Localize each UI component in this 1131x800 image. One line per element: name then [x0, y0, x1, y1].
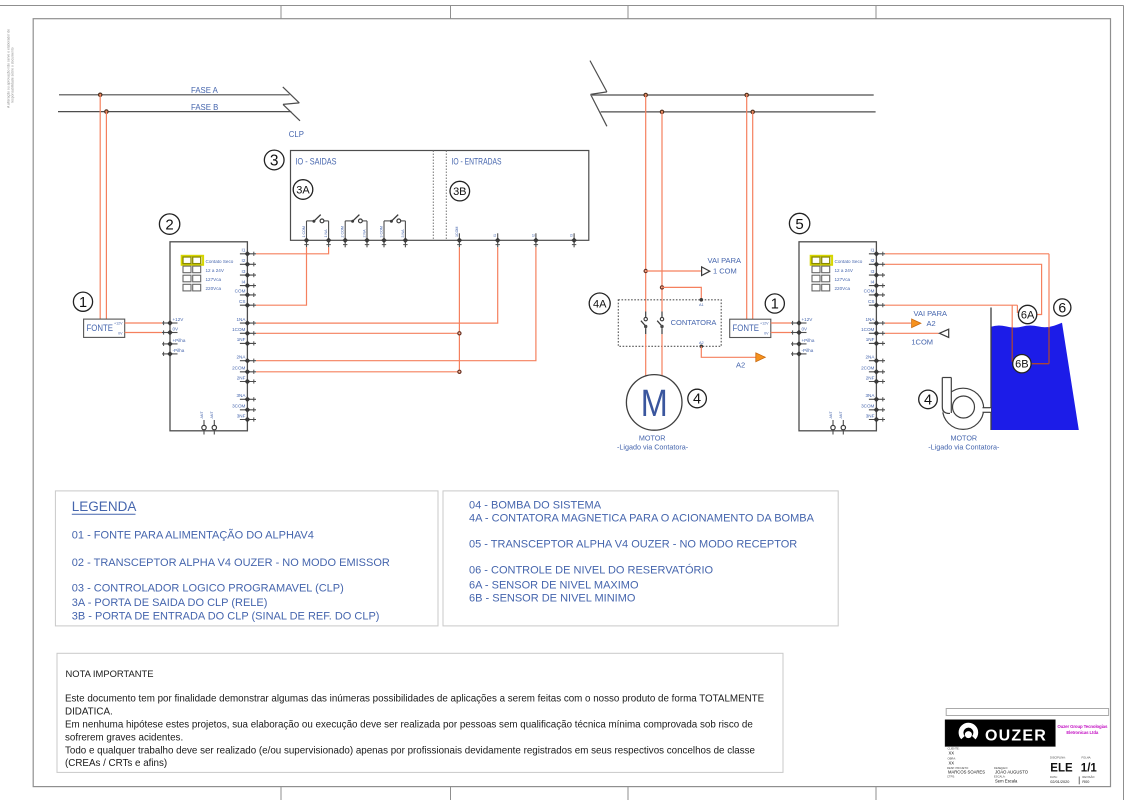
svg-text:Sem Escala: Sem Escala: [995, 778, 1018, 783]
svg-text:6A: 6A: [1021, 309, 1035, 321]
svg-text:FOLHA:: FOLHA:: [1082, 756, 1092, 760]
U2 pin CS: [239, 299, 256, 308]
svg-text:DIDATICA.: DIDATICA.: [65, 707, 113, 718]
svg-text:2 COM: 2 COM: [341, 226, 345, 237]
svg-text:2 NA: 2 NA: [363, 229, 367, 238]
svg-text:2NA: 2NA: [236, 355, 246, 360]
svg-text:Contato Seco: Contato Seco: [835, 259, 863, 264]
CLP relay contact K3: [380, 215, 409, 248]
U2 pin -Pilha: [162, 348, 185, 357]
junction FASE A / fonte drop: [99, 93, 102, 96]
U2 pin 3NF: [237, 413, 256, 422]
svg-text:A1: A1: [699, 303, 704, 307]
svg-text:3 NA: 3 NA: [401, 229, 405, 238]
U5 pin COM: [864, 289, 885, 298]
U2 antenna pin 1: [200, 411, 206, 435]
svg-text:2NA: 2NA: [865, 355, 875, 360]
U2 pin I3: [240, 269, 256, 278]
svg-text:COM: COM: [235, 289, 246, 294]
contactor KM1 enclosure: [618, 300, 721, 347]
CLP relay contact K1: [302, 215, 331, 248]
legend box left: [55, 491, 438, 626]
zone tick top 2: [450, 6, 452, 19]
U2 pin 1NF: [237, 337, 256, 346]
junction fase A / contactor drop: [644, 93, 647, 96]
wire U5 I1 to 6B: [885, 254, 1049, 364]
U2 pin 0V: [162, 327, 179, 336]
svg-text:CS: CS: [868, 299, 874, 304]
U2 pin 1NA: [236, 317, 256, 326]
U5 pin I3: [869, 269, 885, 278]
svg-text:4: 4: [693, 392, 701, 408]
svg-text:R00: R00: [1082, 780, 1089, 784]
label MOTOR (left): [617, 433, 689, 451]
svg-text:3 COM: 3 COM: [380, 226, 384, 237]
label VAI PARA A2: [914, 309, 947, 328]
svg-text:A2: A2: [736, 360, 745, 369]
CLP input pin 1COM: [455, 227, 462, 248]
svg-text:DISCIPLINA:: DISCIPLINA:: [1050, 756, 1066, 760]
U5 pin 2NA: [865, 355, 885, 364]
net FASE B (right bus): [601, 111, 876, 113]
svg-text:0V: 0V: [764, 332, 769, 336]
wire U5 1NA to A2 arrow: [885, 322, 911, 324]
nota paragraph: [65, 694, 765, 770]
U5 pin 2NF: [866, 375, 885, 384]
U2 pin I4: [240, 279, 256, 288]
svg-text:DATA:: DATA:: [1050, 775, 1058, 779]
svg-text:I3: I3: [570, 234, 574, 237]
arrow A2 (filled): [756, 353, 766, 362]
U5 pin 1NA: [865, 317, 885, 326]
junction FASE B / fonte drop: [105, 110, 108, 113]
svg-text:ANT: ANT: [210, 411, 214, 419]
svg-text:I2: I2: [242, 258, 246, 263]
contactor coil terminal A1: [699, 298, 704, 307]
svg-text:1/1: 1/1: [1081, 762, 1098, 774]
svg-text:3: 3: [270, 153, 279, 170]
svg-text:0V: 0V: [173, 327, 180, 332]
U2 pin 2NA: [236, 355, 256, 364]
reservoir water (6): [991, 323, 1079, 430]
svg-text:02/01/2020: 02/01/2020: [1050, 780, 1069, 784]
U5 antenna pin 1: [829, 411, 835, 435]
U2 pin I1: [240, 248, 256, 257]
wire U5 CS to sensors: [885, 305, 1017, 313]
wire U2 2COM to CLP input COM bus: [256, 371, 459, 373]
svg-text:XX: XX: [949, 760, 955, 765]
svg-text:I3: I3: [242, 269, 246, 274]
svg-text:2: 2: [165, 217, 173, 234]
svg-text:Ouzer Group Tecnologias: Ouzer Group Tecnologias: [1057, 724, 1108, 729]
U5 pin 1NF: [866, 337, 885, 346]
svg-text:3A: 3A: [296, 184, 310, 196]
U2 pin 1COM: [232, 327, 256, 336]
U2 pin I2: [240, 258, 256, 267]
U2 pin 2NF: [237, 375, 256, 384]
U2 antenna pin 2: [210, 411, 216, 435]
balloon 5 (transceiver receptor): [789, 213, 809, 233]
CLP internal divider: [433, 151, 446, 241]
svg-text:CS: CS: [239, 299, 245, 304]
U5 pin +Pilha: [791, 338, 815, 347]
U5 pin CS: [868, 299, 885, 308]
svg-text:I3: I3: [871, 269, 875, 274]
balloon 3A (saida rele): [293, 180, 313, 200]
wire contactor pole2 to motor: [661, 334, 663, 376]
svg-text:4: 4: [924, 393, 932, 409]
zone tick bottom 1: [280, 787, 282, 800]
junction tap to A1: [660, 286, 663, 289]
legend box right: [443, 491, 838, 626]
U2 pin 3COM: [232, 404, 256, 413]
svg-text:4A: 4A: [593, 298, 607, 310]
svg-text:5: 5: [795, 216, 803, 233]
svg-text:I4: I4: [871, 279, 875, 284]
svg-text:1 COM: 1 COM: [302, 226, 306, 237]
svg-text:04 - BOMBA DO SISTEMA: 04 - BOMBA DO SISTEMA: [469, 500, 602, 512]
svg-text:VAI PARA: VAI PARA: [914, 309, 947, 318]
motor M1: [626, 375, 682, 431]
junction COM/1COM: [458, 332, 461, 335]
U5 jumper block: [811, 256, 863, 291]
junction fase B / contactor drop: [660, 110, 663, 113]
wire U5 I2 to 6A: [885, 264, 1042, 314]
CLP input pin I2: [531, 233, 538, 247]
balloon 6 (controle de nivel): [1054, 299, 1071, 316]
U5 pin 3COM: [861, 404, 885, 413]
net FASE B (left bus): [58, 111, 291, 113]
balloon 4 (bomba): [919, 390, 938, 409]
power supply FONTE 01 (right): [730, 319, 771, 337]
CLP input pin I3: [570, 233, 577, 247]
svg-text:6: 6: [1058, 300, 1066, 316]
wire CS branch to 6B: [1011, 305, 1013, 362]
svg-text:3NF: 3NF: [237, 413, 246, 418]
net FASE A (left bus): [59, 94, 290, 96]
wire FONTE01r 0V to U5: [771, 332, 792, 334]
transceiver U2 body: [170, 242, 247, 431]
svg-text:+12V: +12V: [760, 322, 769, 326]
svg-text:3B - PORTA DE ENTRADA DO CLP (: 3B - PORTA DE ENTRADA DO CLP (SINAL DE R…: [72, 610, 380, 622]
power supply FONTE 01 (left): [84, 319, 125, 337]
bus break symbol left: [283, 87, 300, 121]
wire A2 to arrow: [701, 346, 755, 357]
svg-text:+12V: +12V: [173, 317, 185, 322]
wire FONTE01r +12V to U5: [771, 322, 792, 324]
legend title LEGENDA: [72, 499, 137, 514]
svg-text:ANT: ANT: [829, 411, 833, 419]
svg-text:0V: 0V: [118, 332, 123, 336]
U5 pin I4: [869, 279, 885, 288]
wire fase B to FONTE 01 right: [752, 112, 754, 319]
svg-text:FONTE: FONTE: [733, 323, 760, 333]
wire tap VAI PARA 1 COM: [646, 270, 701, 272]
svg-text:12 a 24V: 12 a 24V: [835, 268, 854, 273]
wire fase B to contactor L2: [661, 112, 663, 312]
wire U2 2NA to CLP input I2: [256, 247, 536, 360]
svg-text:6B: 6B: [1015, 359, 1028, 371]
svg-text:0V: 0V: [802, 327, 809, 332]
svg-text:1 COM: 1 COM: [713, 266, 737, 275]
arrow VAI PARA 1 COM (open): [702, 267, 710, 276]
U2 pin +Pilha: [162, 338, 186, 347]
contactor main contact pole 1: [641, 312, 648, 335]
zone tick bottom 3: [627, 787, 629, 800]
svg-text:3NA: 3NA: [236, 393, 246, 398]
balloon 1 (right fonte): [765, 294, 784, 313]
contactor coil terminal A2: [699, 341, 704, 348]
svg-text:Todo e qualquer trabalho deve: Todo e qualquer trabalho deve ser realiz…: [65, 745, 756, 756]
svg-text:1 NA: 1 NA: [324, 229, 328, 238]
svg-text:-Pilha: -Pilha: [173, 348, 185, 353]
svg-text:03 - CONTROLADOR LOGICO PROGRA: 03 - CONTROLADOR LOGICO PROGRAMAVEL (CLP…: [72, 583, 344, 595]
junction fase A / fonte drop: [745, 93, 748, 96]
wire contactor pole1 to motor: [645, 334, 647, 376]
svg-text:Contato Seco: Contato Seco: [206, 259, 234, 264]
svg-text:I2: I2: [531, 234, 535, 237]
svg-text:OUZER: OUZER: [985, 727, 1047, 744]
svg-text:IO - ENTRADAS: IO - ENTRADAS: [452, 156, 502, 166]
wire fase A to FONTE 01 right: [746, 95, 748, 319]
svg-text:3A - PORTA DE SAIDA DO CLP (RE: 3A - PORTA DE SAIDA DO CLP (RELE): [72, 597, 268, 609]
svg-text:-Pilha: -Pilha: [802, 348, 814, 353]
svg-text:1NF: 1NF: [237, 337, 246, 342]
U2 pin 3NA: [236, 393, 256, 402]
svg-text:4A - CONTATORA MAGNETICA PARA: 4A - CONTATORA MAGNETICA PARA O ACIONAME…: [469, 513, 815, 525]
svg-text:MOTOR: MOTOR: [950, 433, 977, 442]
wire U2 1NA to CLP input I1: [256, 247, 498, 323]
svg-text:FASE A: FASE A: [191, 86, 219, 95]
svg-text:3NF: 3NF: [866, 413, 875, 418]
svg-text:A2: A2: [927, 319, 936, 328]
svg-text:CTPS:: CTPS:: [947, 775, 955, 779]
svg-text:1: 1: [771, 297, 779, 313]
svg-text:2NF: 2NF: [866, 375, 875, 380]
U5 pin 2COM: [861, 366, 885, 375]
reservoir wall: [990, 308, 992, 431]
zone tick bottom 2: [450, 787, 452, 800]
svg-text:A2: A2: [699, 341, 704, 345]
svg-text:+12V: +12V: [114, 322, 123, 326]
svg-text:(CREAs / CRTs e afins): (CREAs / CRTs e afins): [65, 758, 167, 769]
svg-text:Este documento tem por finalid: Este documento tem por finalidade demons…: [65, 694, 765, 705]
U5 pin 0V: [791, 327, 808, 336]
junction tap to 1 COM: [644, 269, 647, 272]
svg-text:1COM: 1COM: [455, 227, 459, 237]
U2 jumper block: [182, 256, 234, 291]
svg-text:1NF: 1NF: [866, 337, 875, 342]
svg-text:2COM: 2COM: [232, 366, 245, 371]
svg-text:1NA: 1NA: [236, 317, 246, 322]
zone tick top 4: [875, 6, 877, 19]
title strip bar: [946, 709, 1108, 716]
svg-text:05 - TRANSCEPTOR ALPHA V4 OUZE: 05 - TRANSCEPTOR ALPHA V4 OUZER - NO MOD…: [469, 539, 797, 551]
svg-text:I1: I1: [493, 234, 497, 237]
svg-text:Em nenhuma hipótese estes proj: Em nenhuma hipótese estes projetos, sua …: [65, 720, 753, 731]
svg-text:220Vca: 220Vca: [206, 286, 222, 291]
wire U5 1COM to 1COM arrow: [885, 332, 939, 334]
sensor 6A nivel maximo: [1018, 305, 1036, 323]
svg-text:FASE B: FASE B: [191, 103, 218, 112]
svg-text:01 - FONTE PARA ALIMENTAÇÃO DO: 01 - FONTE PARA ALIMENTAÇÃO DO ALPHAV4: [72, 529, 314, 542]
CLP relay contact K2: [341, 215, 370, 248]
svg-text:VAI PARA: VAI PARA: [708, 256, 741, 265]
svg-text:12 a 24V: 12 a 24V: [206, 268, 225, 273]
balloon 2 (transceiver emissor): [159, 214, 179, 234]
svg-text:1NA: 1NA: [865, 317, 875, 322]
svg-text:+Pilha: +Pilha: [173, 338, 186, 343]
wire tap to contactor A1: [662, 287, 701, 298]
svg-text:+12V: +12V: [802, 317, 814, 322]
zone tick bottom 4: [875, 787, 877, 800]
svg-text:XX: XX: [949, 750, 955, 755]
svg-text:1COM: 1COM: [911, 337, 933, 346]
contactor main contact pole 2: [657, 312, 664, 335]
svg-text:127Vca: 127Vca: [835, 277, 851, 282]
svg-text:1COM: 1COM: [232, 327, 245, 332]
svg-text:-Ligado via Contatora-: -Ligado via Contatora-: [928, 442, 1000, 451]
U5 antenna pin 2: [839, 411, 845, 435]
U2 pin 2COM: [232, 366, 256, 375]
svg-text:JOÃO AUGUSTO: JOÃO AUGUSTO: [995, 770, 1029, 775]
U2 pin COM: [235, 289, 256, 298]
U5 pin 1COM: [861, 327, 885, 336]
transceiver U5 body: [799, 242, 876, 431]
svg-text:3B: 3B: [453, 186, 466, 198]
U2 pin +12V: [162, 317, 184, 326]
svg-text:M: M: [641, 383, 668, 425]
wire FONTE01 0V to U2: [125, 332, 163, 334]
svg-text:220Vca: 220Vca: [835, 286, 851, 291]
svg-text:ANT: ANT: [200, 411, 204, 419]
U5 pin 3NA: [865, 393, 885, 402]
balloon 3B (entrada): [450, 181, 470, 201]
svg-text:MARCOS SOARES: MARCOS SOARES: [948, 770, 985, 775]
svg-text:2NF: 2NF: [237, 375, 246, 380]
svg-text:127Vca: 127Vca: [206, 277, 222, 282]
svg-text:responsabilidade sobre o docum: responsabilidade sobre o documento: [11, 47, 15, 103]
svg-text:1: 1: [79, 295, 87, 311]
sensor 6B nivel minimo: [1013, 355, 1031, 373]
svg-text:ELE: ELE: [1050, 762, 1073, 774]
zone tick top 1: [280, 6, 282, 19]
junction fase B / fonte drop: [751, 110, 754, 113]
bus break symbol right: [590, 61, 607, 127]
wire CLP K1-NA to U2 I1: [256, 247, 329, 254]
arrow VAI PARA A2 (filled): [912, 319, 921, 328]
svg-text:06 - CONTROLE DE NIVEL DO RESE: 06 - CONTROLE DE NIVEL DO RESERVATÓRIO: [469, 564, 714, 577]
svg-text:sofrerem graves acidentes.: sofrerem graves acidentes.: [65, 732, 183, 743]
svg-text:NOTA IMPORTANTE: NOTA IMPORTANTE: [66, 668, 154, 679]
svg-text:ANT: ANT: [839, 411, 843, 419]
wire fase A to contactor L1: [645, 95, 647, 312]
svg-text:CONTATORA: CONTATORA: [671, 318, 717, 327]
nota importante box: [57, 653, 783, 772]
company name magenta: [1057, 724, 1108, 735]
svg-text:2COM: 2COM: [861, 366, 874, 371]
wire U2 1COM to CLP input COM bus: [256, 332, 459, 334]
svg-text:I4: I4: [242, 279, 246, 284]
U5 pin I1: [869, 248, 885, 257]
wire CLP input COM vertical: [458, 247, 460, 371]
pump P1 (bomba): [942, 378, 991, 430]
svg-text:CLP: CLP: [289, 130, 304, 139]
balloon 4 (motor): [688, 389, 707, 408]
OUZER logo plate: [945, 720, 1055, 747]
U5 pin I2: [869, 258, 885, 267]
label VAI PARA 1 COM: [708, 256, 741, 275]
svg-text:02 - TRANSCEPTOR ALPHA V4 OUZE: 02 - TRANSCEPTOR ALPHA V4 OUZER - NO MOD…: [72, 557, 390, 569]
svg-text:3NA: 3NA: [865, 393, 875, 398]
sheet outer right edge: [1123, 6, 1125, 800]
svg-text:3COM: 3COM: [232, 404, 245, 409]
title block fields: [947, 747, 1097, 785]
wire FASE B to FONTE 01: [105, 112, 107, 320]
svg-text:LEGENDA: LEGENDA: [72, 499, 137, 514]
U5 pin +12V: [791, 317, 813, 326]
zone tick top 3: [627, 6, 629, 19]
junction COM/2COM: [458, 370, 461, 373]
balloon 1 (left fonte): [73, 292, 92, 311]
svg-text:MOTOR: MOTOR: [639, 433, 666, 442]
svg-text:I1: I1: [242, 248, 246, 253]
svg-text:1COM: 1COM: [861, 327, 874, 332]
CLP body: [291, 151, 589, 241]
svg-text:Eletronicas Ltda: Eletronicas Ltda: [1066, 730, 1098, 735]
wire CLP K1-COM to U2 CS: [256, 247, 307, 305]
balloon 4A (contatora): [589, 293, 610, 314]
label MOTOR (right): [928, 433, 1000, 451]
svg-text:I2: I2: [871, 258, 875, 263]
U5 pin 3NF: [866, 413, 885, 422]
CLP input pin I1: [493, 233, 500, 247]
sheet outer top edge: [0, 5, 1124, 7]
side margin note (rotated): [7, 29, 15, 108]
arrow 1COM (open, left): [939, 329, 948, 337]
U5 pin -Pilha: [791, 348, 814, 357]
net FASE A (right bus): [592, 94, 874, 96]
wire FONTE01 +12V to U2: [125, 322, 163, 324]
balloon 3 (CLP): [264, 150, 284, 170]
svg-text:IO - SAIDAS: IO - SAIDAS: [296, 156, 337, 166]
svg-text:FONTE: FONTE: [87, 323, 114, 333]
svg-text:+Pilha: +Pilha: [802, 338, 815, 343]
svg-text:-Ligado via Contatora-: -Ligado via Contatora-: [617, 442, 689, 451]
svg-text:3COM: 3COM: [861, 404, 874, 409]
svg-text:I1: I1: [871, 248, 875, 253]
svg-text:COM: COM: [864, 289, 875, 294]
svg-text:6A - SENSOR DE NIVEL MAXIMO: 6A - SENSOR DE NIVEL MAXIMO: [469, 580, 639, 592]
svg-text:6B - SENSOR DE NIVEL MINIMO: 6B - SENSOR DE NIVEL MINIMO: [469, 593, 636, 605]
wire FASE A to FONTE 01: [99, 95, 101, 319]
